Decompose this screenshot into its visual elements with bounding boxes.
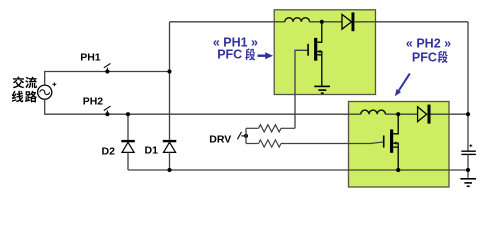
wire: output rail vertical (467, 22, 469, 151)
node PH1 junction dot (105, 69, 109, 73)
node: Q1 drain / top bus junction (320, 20, 324, 24)
wire: D4 cathode to output rail (431, 113, 469, 115)
wire: gate splitter bracket (245, 128, 247, 143)
resistor R2 (gate, stage 2) (246, 140, 383, 147)
label 交流线路 (AC line) (12, 77, 37, 103)
arrow to stage 2 (395, 74, 410, 97)
diode D1 (163, 140, 177, 153)
capacitor C1 (bulk output cap) (461, 151, 476, 154)
AC source plus polarity mark (53, 82, 57, 86)
wire: PH1/D1 vertical riser (169, 22, 171, 140)
wire: L1 to diode D3 (310, 21, 343, 23)
wire: cap bottom to ground (467, 154, 469, 177)
node PH1 tick (104, 63, 111, 71)
node: stage 2 output / rail junction (466, 112, 470, 116)
svg-text:PH1: PH1 (80, 52, 101, 64)
node: Q2 drain / stage 2 bus junction (396, 112, 400, 116)
node PH2 junction dot (105, 112, 109, 116)
node DRV junction dot (244, 134, 248, 138)
capacitor plus mark (469, 144, 472, 147)
svg-text:PFC: PFC (217, 48, 242, 62)
node: D1 / bottom rail junction (167, 168, 171, 172)
wire: D1 anode to bottom rail (169, 152, 171, 170)
node: PH1 riser junction (167, 69, 171, 73)
wire: D2 anode to bottom rail (127, 152, 129, 170)
node: Q2 source / bottom rail junction (396, 168, 400, 172)
ground (output return) (460, 179, 476, 187)
inductor L2 (361, 110, 386, 114)
wire: source bottom lead / PH2 line to stage 2 (45, 99, 361, 114)
wire: D2 branch top (127, 114, 129, 140)
arrow to stage 1 (258, 52, 274, 59)
svg-text:PH2: PH2 (83, 95, 104, 107)
transistor Q2 (stage 2 MOSFET) (384, 114, 399, 170)
PFC stage 2 green box (349, 102, 450, 188)
diode D4 (stage 2 boost diode) (418, 105, 431, 124)
svg-text:DRV: DRV (209, 134, 231, 146)
wire: D3 cathode to output rail (354, 21, 468, 23)
AC source V1 (38, 85, 52, 99)
resistor R1 (gate, stage 1) (246, 125, 295, 132)
wire: R1 to gate of Q1 (295, 50, 307, 128)
node PH2 tick (104, 106, 111, 114)
wire: L2 to diode D4 (385, 113, 417, 115)
ground (stage 1 source) (314, 86, 330, 93)
svg-text:D1: D1 (145, 144, 159, 156)
svg-text:PFC: PFC (412, 51, 437, 65)
wire: bottom return rail (128, 169, 468, 171)
PFC stage 1 green box (274, 10, 375, 95)
node DRV tick (237, 132, 246, 140)
svg-text:« PH2 »: « PH2 » (406, 37, 451, 51)
diode D2 (121, 140, 135, 153)
inductor L1 (285, 18, 310, 22)
transistor Q1 (stage 1 MOSFET) (308, 22, 322, 86)
wire: top bus into stage 1 (170, 21, 285, 23)
node: D2/PH2 junction (126, 112, 130, 116)
diode D3 (stage 1 boost diode) (342, 12, 354, 31)
node: rail / cap / ground junction (466, 168, 470, 172)
wire: source top lead to PH1 line (45, 72, 170, 86)
svg-text:D2: D2 (102, 145, 116, 157)
